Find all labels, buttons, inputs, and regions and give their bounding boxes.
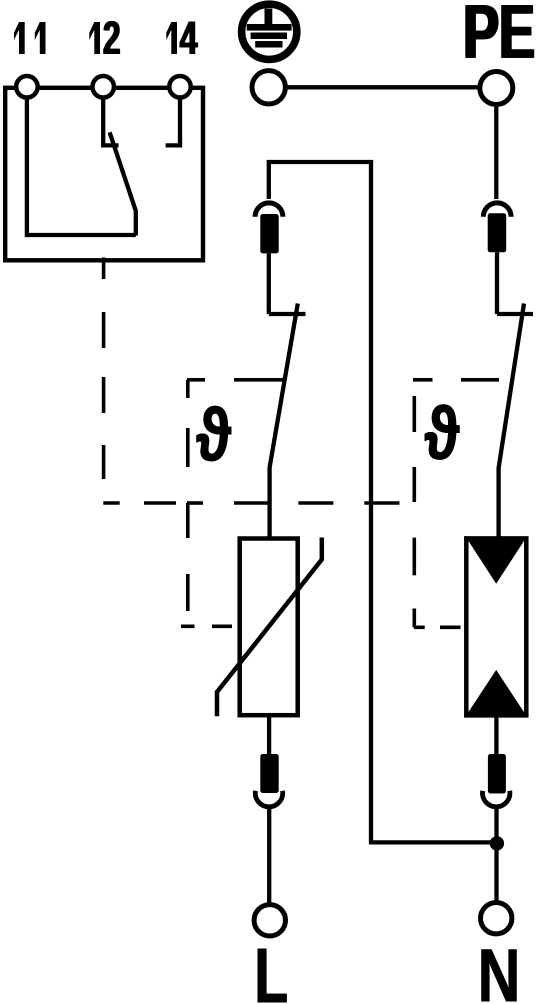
terminal label 12 <box>89 21 120 54</box>
right thermal switch arm <box>499 304 524 539</box>
wire from terminal 12 down with right stub contact <box>103 87 118 145</box>
varistor diagonal stroke <box>217 538 322 717</box>
right fuse body <box>488 213 507 252</box>
earth symbol bar 2 <box>251 33 287 40</box>
earth symbol circle <box>242 4 297 59</box>
right lower fuse body <box>488 754 506 794</box>
wire below right fuse with right stub <box>497 252 533 314</box>
theta symbol left <box>196 406 231 461</box>
wire below varistor <box>267 715 271 754</box>
relay changeover switch arm <box>110 132 136 235</box>
relay box (remote signalling contact) <box>5 88 203 260</box>
wire down to L terminal <box>267 809 271 905</box>
right thermal disconnect dashed box top edge <box>413 378 499 382</box>
earth symbol bar 1 <box>247 24 292 31</box>
earth symbol stem <box>265 9 273 27</box>
label PE <box>465 5 534 58</box>
terminal circle 12 <box>92 76 114 98</box>
dashed mechanical linkage from relay box down <box>102 258 106 480</box>
terminal label 14 <box>166 22 198 55</box>
left thermal disconnect dashed box top edge <box>187 378 284 382</box>
gas discharge tube body <box>466 538 526 715</box>
earth symbol bar 3 <box>255 41 282 48</box>
wire down to N terminal <box>494 809 498 903</box>
wire from terminal 14 down with left stub contact <box>166 87 180 145</box>
left thermal disconnect dashed box bottom edge <box>181 624 232 628</box>
right lower thermal disconnect arc <box>483 791 510 807</box>
terminal circle 14 <box>169 76 191 98</box>
junction dot N to PE branch <box>490 836 504 850</box>
earth terminal circle <box>252 71 285 104</box>
wire PE down to right fuse <box>494 105 498 200</box>
label N <box>481 949 517 1001</box>
left lower thermal disconnect arc <box>255 791 282 807</box>
wire below gas discharge tube <box>494 716 498 755</box>
right thermal disconnect arc <box>483 203 511 217</box>
terminal circle 11 <box>16 76 38 98</box>
left lower fuse body <box>260 754 278 793</box>
left thermal disconnect arc <box>255 203 283 217</box>
left thermal switch arm <box>270 304 298 539</box>
PE terminal circle <box>480 72 513 105</box>
left fuse body <box>260 214 278 253</box>
varistor body <box>240 539 298 716</box>
gas discharge tube lower triangle <box>468 670 525 714</box>
gas discharge tube upper triangle <box>468 540 525 584</box>
wire below left fuse with right stub <box>269 253 306 314</box>
right thermal disconnect dashed box bottom edge <box>414 625 461 629</box>
left thermal disconnect dashed box left edge <box>186 380 190 611</box>
N terminal circle <box>481 903 512 934</box>
wire from terminal 11 down with bottom contact bar <box>27 87 136 235</box>
dashed mechanical linkage horizontal <box>103 501 399 505</box>
terminal label 11 <box>14 22 46 54</box>
label L <box>258 949 287 1003</box>
theta symbol right <box>425 404 460 459</box>
wire earth terminal to PE terminal <box>269 85 496 89</box>
L terminal circle <box>254 905 285 936</box>
right thermal disconnect dashed box left edge <box>412 396 416 628</box>
wire left branch top corner and long vertical to N junction <box>269 162 497 842</box>
